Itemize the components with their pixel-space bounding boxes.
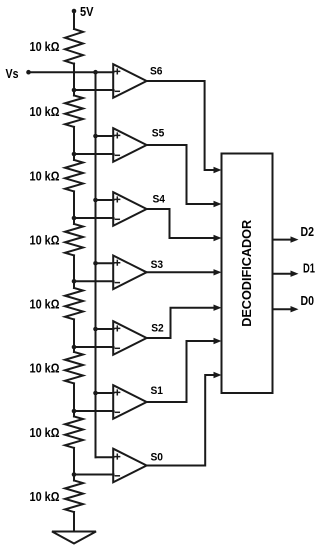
wire bus to S4 noninverting input [96, 199, 114, 201]
svg-text:Vs: Vs [6, 66, 19, 81]
svg-text:10 kΩ: 10 kΩ [30, 425, 60, 440]
wire [73, 512, 75, 532]
op-amp comparator S0 [113, 449, 146, 483]
svg-text:D0: D0 [301, 293, 315, 308]
wire tap3 to S4 inverting input [74, 217, 114, 219]
wire bus to S5 noninverting input [96, 135, 114, 137]
decoder U1 [222, 154, 273, 394]
junction bus to S1 [93, 391, 98, 396]
node tap6 [72, 409, 77, 414]
resistor R3 [65, 160, 83, 191]
node tap5 [72, 345, 77, 350]
wire tap2 to S5 inverting input [74, 153, 114, 155]
wire Vs to S6 noninverting input [29, 71, 114, 73]
ground [52, 532, 96, 544]
node 5V [72, 9, 77, 14]
svg-text:S0: S0 [151, 452, 164, 464]
wire bus to S2 noninverting input [96, 328, 114, 330]
wire bus to S0 noninverting input [96, 456, 114, 458]
wire S3 output to decoder input 4 [147, 269, 222, 275]
resistor R1 [65, 29, 83, 64]
junction bus to S4 [93, 198, 98, 203]
wire tap7 to S0 inverting input [74, 474, 114, 476]
resistor R6 [65, 352, 83, 384]
wire [73, 448, 75, 481]
svg-text:D1: D1 [303, 261, 315, 276]
svg-text:5V: 5V [80, 4, 94, 19]
wire [73, 383, 75, 416]
resistor R2 [65, 95, 83, 127]
wire bus to S3 noninverting input [96, 262, 114, 264]
wire bus to S1 noninverting input [96, 392, 114, 394]
junction bus to S3 [93, 261, 98, 266]
wire S5 output to decoder input 2 [147, 145, 222, 207]
op-amp comparator S5 [113, 128, 146, 162]
wire [73, 191, 75, 224]
svg-text:10 kΩ: 10 kΩ [30, 489, 60, 504]
wire [73, 319, 75, 352]
wire [73, 127, 75, 160]
wire S4 output to decoder input 3 [147, 209, 222, 241]
wire D0 output [273, 306, 299, 312]
resistor R4 [65, 224, 83, 255]
svg-text:S5: S5 [152, 128, 165, 140]
op-amp comparator S2 [113, 321, 146, 355]
op-amp comparator S4 [113, 192, 146, 226]
wire [73, 11, 75, 29]
op-amp comparator S6 [113, 64, 146, 98]
junction Vs bus [93, 70, 98, 75]
wire S6 output to decoder input 1 [147, 81, 222, 173]
op-amp comparator S3 [113, 256, 146, 290]
node tap7 [72, 472, 77, 477]
svg-text:10 kΩ: 10 kΩ [30, 361, 60, 376]
svg-text:10 kΩ: 10 kΩ [30, 233, 60, 248]
op-amp comparator S1 [113, 385, 146, 419]
wire [73, 64, 75, 96]
svg-text:S2: S2 [151, 323, 164, 335]
wire tap4 to S3 inverting input [74, 280, 114, 282]
junction bus to S2 [93, 327, 98, 332]
wire D1 output [273, 271, 299, 277]
svg-text:S1: S1 [151, 385, 164, 397]
svg-text:S4: S4 [153, 194, 166, 206]
wire tap1 to S6 inverting input [74, 89, 114, 91]
node tap3 [72, 216, 77, 221]
resistor R8 [65, 481, 83, 513]
node Vs [26, 70, 31, 75]
svg-text:S3: S3 [151, 259, 164, 271]
wire [73, 255, 75, 288]
wire S1 output to decoder input 6 [147, 338, 222, 402]
junction bus to S5 [93, 134, 98, 139]
wire D2 output [273, 236, 299, 242]
svg-text:10 kΩ: 10 kΩ [30, 104, 60, 119]
node tap4 [72, 279, 77, 284]
svg-text:10 kΩ: 10 kΩ [30, 297, 60, 312]
svg-text:S6: S6 [150, 66, 163, 78]
svg-text:10 kΩ: 10 kΩ [30, 169, 60, 184]
wire Vs bus [95, 72, 97, 457]
wire tap6 to S1 inverting input [74, 410, 114, 412]
svg-text:10 kΩ: 10 kΩ [30, 39, 60, 54]
node tap2 [72, 152, 77, 157]
svg-text:D2: D2 [301, 224, 315, 239]
wire S0 output to decoder input 7 [147, 372, 222, 466]
wire tap5 to S2 inverting input [74, 346, 114, 348]
node tap1 [72, 88, 77, 93]
resistor R7 [65, 416, 83, 448]
resistor R5 [65, 288, 83, 320]
svg-text:DECODIFICADOR: DECODIFICADOR [240, 220, 254, 327]
wire S2 output to decoder input 5 [147, 305, 222, 339]
